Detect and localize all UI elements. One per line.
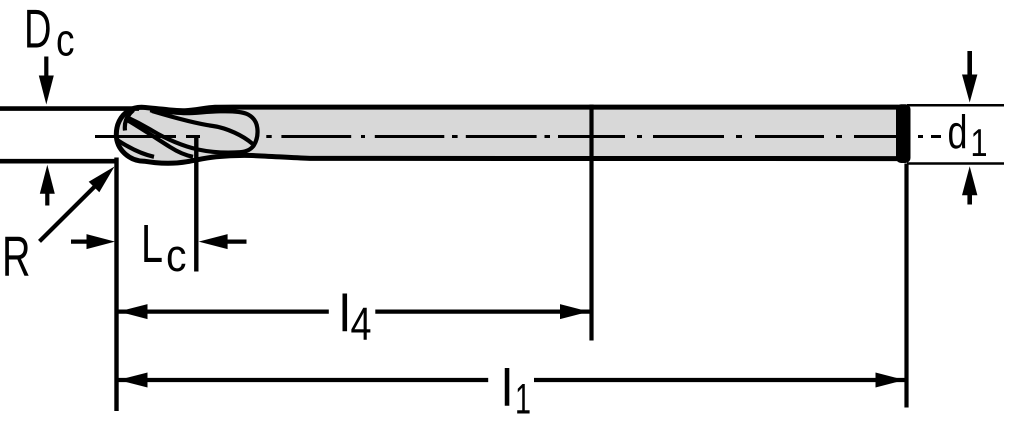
svg-text:d: d <box>948 105 968 158</box>
center line (dash-dot) <box>95 135 941 138</box>
second flute edge (lower) <box>118 141 154 157</box>
d1 top extension line <box>907 104 1004 107</box>
svg-text:4: 4 <box>351 298 372 350</box>
flute edge crossing centerline <box>127 120 193 157</box>
svg-text:l: l <box>339 285 351 343</box>
inner ball cutting-edge arc <box>125 110 134 131</box>
d1 bottom extension line <box>907 162 1004 165</box>
svg-text:D: D <box>24 0 52 60</box>
l1 right extension line <box>904 164 908 408</box>
Dc top reference line <box>0 106 139 111</box>
l1 dimension line <box>117 378 488 382</box>
svg-text:L: L <box>141 214 163 274</box>
svg-text:c: c <box>56 15 75 66</box>
flute groove loop <box>127 110 258 152</box>
l4 right extension line <box>589 105 593 341</box>
R leader arrow <box>40 184 98 241</box>
inner flute helix edge <box>152 111 253 144</box>
Lc right arrow <box>225 240 247 244</box>
tool body outline (ball nose end mill silhouette) <box>116 107 905 163</box>
l4 dimension line <box>117 310 329 314</box>
d1 top arrow <box>967 51 972 77</box>
Lc left arrow <box>71 240 89 244</box>
left common extension line (tool tip) <box>114 158 118 412</box>
svg-text:l: l <box>501 360 513 418</box>
svg-text:R: R <box>2 225 31 289</box>
Dc bottom reference line <box>0 159 117 164</box>
shank end cap <box>896 104 911 163</box>
svg-text:1: 1 <box>515 376 531 424</box>
Dc top arrow <box>44 57 48 80</box>
svg-text:1: 1 <box>971 122 988 165</box>
Dc bottom arrow <box>45 190 49 206</box>
svg-text:c: c <box>166 230 187 281</box>
Lc right extension line <box>194 137 198 272</box>
d1 bottom arrow <box>967 193 972 205</box>
